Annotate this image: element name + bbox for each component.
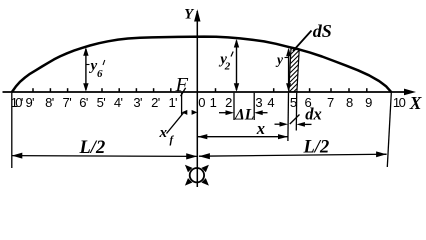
svg-text:1: 1 — [210, 95, 217, 110]
svg-text:L/2: L/2 — [79, 138, 106, 158]
left axis ticks — [33, 88, 171, 92]
svg-text:8: 8 — [346, 95, 353, 110]
curve — [12, 37, 391, 92]
dx dimension arrows — [275, 122, 312, 127]
svg-text:': ' — [175, 95, 177, 110]
X axis — [3, 89, 417, 96]
svg-text:ΔL: ΔL — [234, 107, 254, 124]
F point slash mark on axis — [181, 88, 186, 96]
svg-text:0: 0 — [198, 95, 205, 110]
y2' dimension arrow — [234, 39, 239, 92]
svg-text:4: 4 — [267, 95, 274, 110]
svg-text:': ' — [32, 95, 34, 110]
svg-text:': ' — [52, 95, 54, 110]
xf extension line — [181, 93, 183, 115]
svg-text:9: 9 — [365, 95, 372, 110]
left axis numbers 10'..1' — [11, 95, 176, 110]
left axis number primes — [21, 95, 178, 110]
right axis numbers 0..10 — [198, 95, 405, 110]
svg-text:3: 3 — [255, 95, 262, 110]
source symbol circle — [190, 168, 204, 182]
left extension line (curve end) — [11, 93, 13, 168]
svg-text:L/2: L/2 — [303, 138, 330, 158]
dS leader line — [293, 31, 312, 52]
svg-text:6: 6 — [97, 68, 103, 80]
dL dimension arrows — [219, 110, 268, 115]
svg-text:': ' — [103, 95, 105, 110]
svg-text:': ' — [140, 95, 142, 110]
Y axis — [194, 9, 200, 187]
svg-text:': ' — [69, 95, 71, 110]
y6' label — [89, 58, 105, 80]
xf dimension arrows — [182, 110, 198, 115]
L/2 right dimension — [199, 151, 387, 159]
hatched strip dS — [284, 32, 304, 111]
svg-text:X: X — [409, 93, 423, 113]
svg-text:': ' — [86, 95, 88, 110]
svg-text:7: 7 — [327, 95, 334, 110]
svg-text:': ' — [158, 95, 160, 110]
svg-text:': ' — [21, 95, 23, 110]
L/2 left dimension — [12, 153, 197, 160]
dx leader line — [290, 115, 300, 125]
svg-text:F: F — [175, 74, 189, 96]
xf label — [159, 125, 175, 146]
svg-text:2: 2 — [224, 61, 231, 73]
y dimension arrow (at strip) — [285, 48, 292, 92]
y6' dimension arrow — [83, 47, 89, 91]
svg-text:': ' — [121, 95, 123, 110]
svg-text:dS: dS — [313, 21, 332, 41]
source symbol arrows — [185, 165, 209, 186]
right axis ticks — [216, 88, 367, 92]
right extension line (curve end) — [387, 93, 391, 167]
svg-text:Y: Y — [184, 7, 194, 23]
svg-text:2: 2 — [225, 95, 232, 110]
svg-text:dx: dx — [305, 105, 322, 124]
svg-text:y: y — [275, 52, 284, 67]
dL extension lines — [234, 93, 254, 120]
xf leader line — [167, 113, 184, 134]
svg-text:x: x — [159, 125, 168, 141]
svg-text:x: x — [256, 119, 265, 138]
svg-text:10: 10 — [393, 95, 406, 110]
y2' label — [218, 52, 233, 73]
dx extension lines (strip edges extended) — [288, 93, 297, 141]
x dimension line — [197, 134, 288, 139]
